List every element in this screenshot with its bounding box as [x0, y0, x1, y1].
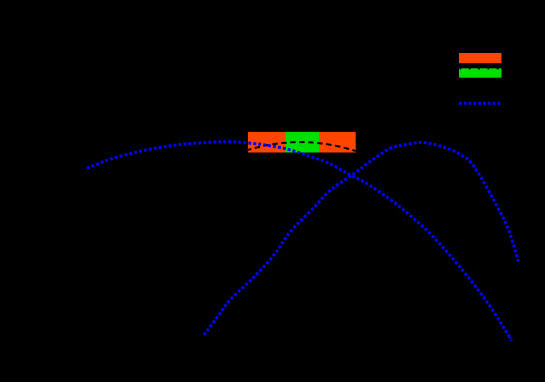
- altitude curve 1 (blue dotted, rises left then falls to bottom right): [87, 142, 511, 340]
- legend orange patch: [459, 53, 502, 63]
- black dashed curve over bar: [246, 142, 356, 151]
- legend blue dotted sample: [459, 102, 501, 105]
- eclipse bar green (totality): [286, 132, 320, 153]
- legend green patch: [459, 68, 502, 77]
- eclipse bar orange: [248, 132, 356, 153]
- altitude curve 2 (blue dotted, rises from bottom to peak then falls): [204, 142, 519, 335]
- legend dashed black sample over green top edge: [460, 68, 502, 70]
